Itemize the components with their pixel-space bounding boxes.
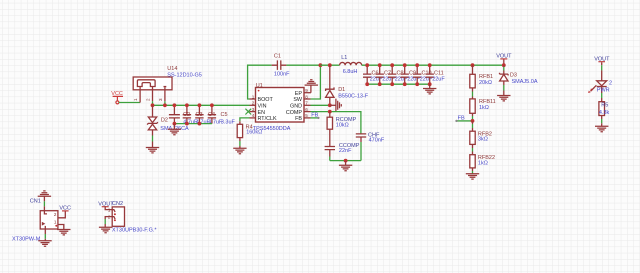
wire CN1 top pin bbox=[43, 196, 45, 210]
svg-text:EP: EP bbox=[295, 91, 303, 97]
U1 pin 4 RT/CLK bbox=[250, 117, 256, 119]
junction C2 bottom bbox=[173, 122, 177, 126]
svg-text:1: 1 bbox=[54, 220, 57, 225]
capacitor C7 22uF bbox=[376, 65, 396, 84]
svg-text:470nF: 470nF bbox=[369, 138, 385, 144]
svg-text:6.8uH: 6.8uH bbox=[343, 69, 358, 75]
svg-text:EN: EN bbox=[258, 110, 266, 116]
net flag VCC (input) bbox=[111, 91, 123, 104]
svg-text:SW: SW bbox=[293, 97, 303, 103]
junction D1 anode bbox=[328, 103, 332, 107]
svg-text:2: 2 bbox=[252, 101, 255, 106]
svg-text:D3: D3 bbox=[510, 72, 517, 78]
junction RCOMP / COMP bbox=[328, 110, 332, 114]
junction C11 top bbox=[428, 63, 432, 67]
svg-text:7: 7 bbox=[305, 101, 308, 106]
svg-text:3.3uF: 3.3uF bbox=[221, 119, 236, 125]
ground (divider) bbox=[466, 174, 479, 179]
node FB (pin 5 stub) bbox=[311, 113, 320, 120]
wire L1 to VOUT bbox=[362, 64, 504, 66]
svg-text:1: 1 bbox=[133, 98, 138, 101]
LED PWR bbox=[588, 70, 612, 101]
svg-text:VCC: VCC bbox=[111, 91, 123, 97]
svg-text:22uF: 22uF bbox=[432, 76, 445, 82]
resistor R4 160k bbox=[237, 118, 262, 148]
U14 pin 3 bbox=[164, 86, 167, 87]
capacitor C6 22uF bbox=[363, 65, 383, 84]
ground (EP pin, flipped) bbox=[305, 80, 318, 93]
U1 pin 1 BOOT bbox=[250, 98, 256, 100]
svg-text:B550C-13-F: B550C-13-F bbox=[338, 94, 369, 100]
ground (CN2 pin2) bbox=[99, 227, 112, 232]
switch U14 SS-12D10-G5 bbox=[133, 66, 202, 90]
ground (CN1 top, flipped) bbox=[38, 191, 51, 196]
svg-text:5: 5 bbox=[305, 113, 308, 118]
capacitor C2 bbox=[169, 105, 198, 125]
junction C6 bottom bbox=[365, 82, 369, 86]
svg-text:PWR: PWR bbox=[597, 87, 610, 93]
svg-text:6: 6 bbox=[305, 107, 308, 112]
junction C9 bottom bbox=[403, 82, 407, 86]
wire GND pin to D1 bbox=[311, 104, 330, 106]
wire output caps bottom rail bbox=[367, 83, 430, 85]
connector CN1 XT30PW-M bbox=[12, 198, 58, 242]
diode D2 SMAJ26CA (TVS) bbox=[147, 105, 189, 147]
CN2 pin 2 to ground bbox=[105, 217, 112, 228]
wire comp bottom rail bbox=[330, 160, 361, 162]
U1 pin 8 SW bbox=[304, 98, 311, 100]
junction C10 top bbox=[415, 63, 419, 67]
U14 pin 2 bbox=[152, 87, 154, 102]
capacitor C3 bbox=[183, 105, 211, 125]
svg-text:C1: C1 bbox=[274, 53, 281, 59]
svg-text:3: 3 bbox=[252, 107, 255, 112]
ground (comp network) bbox=[339, 161, 352, 171]
junction C11 bottom bbox=[428, 82, 432, 86]
svg-text:RT/CLK: RT/CLK bbox=[258, 116, 277, 122]
capacitor C9 22uF bbox=[401, 65, 421, 84]
junction C2 top bbox=[173, 103, 177, 107]
no-connect X on EN bbox=[245, 109, 251, 115]
ground (output caps) bbox=[423, 84, 436, 94]
U1 pin 9 EP bbox=[304, 92, 311, 94]
svg-text:100nF: 100nF bbox=[274, 72, 290, 78]
wire C1 to SW node bbox=[286, 64, 320, 66]
U1 pin 7 GND bbox=[304, 104, 311, 106]
junction C4 bottom bbox=[198, 122, 202, 126]
svg-text:3kΩ: 3kΩ bbox=[478, 137, 488, 143]
capacitor C1 100nF bbox=[272, 53, 291, 77]
junction C4 top bbox=[198, 103, 202, 107]
svg-text:CN1: CN1 bbox=[30, 198, 41, 204]
svg-text:XT30UPB30-F.G.*: XT30UPB30-F.G.* bbox=[112, 228, 157, 234]
resistor RFB2 3k bbox=[470, 121, 492, 155]
capacitor C11 22uF bbox=[426, 65, 446, 84]
svg-text:SMAJ5.0A: SMAJ5.0A bbox=[512, 79, 538, 85]
net flag VOUT (top) bbox=[496, 54, 512, 66]
capacitor CCOMP 22nF bbox=[325, 129, 360, 160]
resistor R5 4.3k bbox=[599, 102, 610, 127]
ground (CN1 bottom) bbox=[38, 241, 51, 246]
junction C8 top bbox=[390, 63, 394, 67]
svg-text:9: 9 bbox=[305, 88, 308, 93]
wire top rail to L1 bbox=[320, 64, 339, 66]
svg-text:XT30PW-M: XT30PW-M bbox=[12, 237, 41, 243]
svg-text:20kΩ: 20kΩ bbox=[479, 80, 492, 86]
svg-text:FB: FB bbox=[295, 116, 302, 122]
diode D3 SMAJ5.0A (TVS) bbox=[500, 65, 538, 95]
junction C3 bottom bbox=[185, 122, 189, 126]
svg-text:1: 1 bbox=[252, 94, 255, 99]
svg-text:C5: C5 bbox=[221, 112, 228, 118]
net flag VOUT (LED branch) bbox=[594, 56, 610, 65]
wire SW pin riser bbox=[311, 65, 321, 99]
svg-text:D2: D2 bbox=[161, 118, 168, 124]
junction pin3/rail bbox=[163, 103, 167, 107]
svg-text:BOOT: BOOT bbox=[258, 97, 274, 103]
junction C5 top bbox=[210, 103, 214, 107]
svg-text:U1: U1 bbox=[256, 83, 263, 89]
svg-text:4: 4 bbox=[252, 113, 255, 118]
wire VIN rail bbox=[153, 104, 250, 106]
net flag VCC (CN1) bbox=[59, 206, 71, 212]
ground (input caps) bbox=[168, 124, 181, 135]
junction SW riser / top rail bbox=[319, 63, 323, 67]
wire VCC to U14 pin1 bbox=[119, 102, 140, 104]
svg-text:8: 8 bbox=[305, 94, 308, 99]
wire BOOT riser to C1 bbox=[248, 65, 272, 99]
U1 pin 5 FB bbox=[304, 117, 311, 119]
junction C6 top bbox=[365, 63, 369, 67]
junction C10 bottom bbox=[415, 82, 419, 86]
capacitor CHF 470nF bbox=[356, 132, 385, 160]
junction comp ground bbox=[344, 159, 348, 163]
svg-text:GND: GND bbox=[290, 104, 302, 110]
junction pin2/rail bbox=[151, 103, 155, 107]
CN2 pin 1 to VOUT bbox=[105, 206, 112, 209]
svg-text:U14: U14 bbox=[167, 66, 177, 72]
resistor RFB22 1k bbox=[470, 155, 495, 174]
U14 pin 1 bbox=[139, 87, 141, 103]
capacitor C10 22uF bbox=[413, 65, 433, 84]
wire LED branch bbox=[601, 65, 603, 70]
U1 pin 6 COMP bbox=[304, 111, 311, 113]
svg-text:TPS54550DDA: TPS54550DDA bbox=[253, 126, 291, 132]
ground (R4) bbox=[233, 148, 246, 153]
capacitor C5 bbox=[208, 105, 236, 125]
junction FB divider bbox=[471, 119, 475, 123]
capacitor C8 22uF bbox=[388, 65, 408, 84]
ground (LED branch) bbox=[595, 126, 608, 131]
U1 pin 2 VIN bbox=[250, 104, 256, 106]
CN1 pin 1 to ground bbox=[58, 225, 64, 230]
CN1 pin 2 to VCC bbox=[58, 211, 65, 218]
svg-text:FB: FB bbox=[311, 113, 318, 119]
ground (CN1 pin1) bbox=[57, 230, 70, 235]
wire COMP pin to CHF bbox=[311, 112, 361, 134]
svg-text:SS-12D10-G5: SS-12D10-G5 bbox=[167, 72, 202, 78]
svg-text:FB: FB bbox=[458, 116, 465, 122]
wire input caps bottom rail bbox=[174, 123, 212, 125]
inductor L1 6.8uH bbox=[340, 55, 362, 75]
junction D1 / top rail bbox=[328, 63, 332, 67]
node FB (divider stub) bbox=[455, 116, 472, 123]
svg-text:L1: L1 bbox=[341, 55, 347, 61]
junction VOUT rail bbox=[502, 63, 506, 67]
svg-text:2: 2 bbox=[145, 98, 150, 101]
svg-text:1kΩ: 1kΩ bbox=[478, 160, 488, 166]
svg-text:10kΩ: 10kΩ bbox=[336, 123, 349, 129]
junction C3 top bbox=[185, 103, 189, 107]
svg-text:D1: D1 bbox=[338, 87, 345, 93]
connector CN2 XT30UPB30 bbox=[108, 201, 158, 234]
diode D1 B550C-13-F bbox=[326, 65, 369, 105]
svg-text:2: 2 bbox=[609, 81, 612, 87]
junction C7 bottom bbox=[378, 82, 382, 86]
U1 pin 3 EN bbox=[250, 111, 256, 113]
junction C8 bottom bbox=[390, 82, 394, 86]
svg-text:R5: R5 bbox=[601, 103, 608, 109]
op-amp U1 TPS54550DDA bbox=[253, 83, 304, 132]
svg-text:COMP: COMP bbox=[286, 110, 303, 116]
junction RFB1 / rail bbox=[471, 63, 475, 67]
svg-text:3: 3 bbox=[158, 98, 163, 101]
resistor RCOMP 10k bbox=[327, 112, 357, 130]
net flag VOUT (CN2) bbox=[98, 202, 114, 208]
capacitor C4 bbox=[195, 105, 223, 125]
junction C7 top bbox=[378, 63, 382, 67]
ground (D3) bbox=[497, 96, 510, 101]
CN1 bottom pin bbox=[44, 229, 46, 241]
svg-text:22nF: 22nF bbox=[339, 148, 352, 154]
ground (D2) bbox=[146, 148, 159, 153]
svg-text:CN2: CN2 bbox=[112, 201, 123, 207]
resistor RFB11 1k bbox=[470, 99, 496, 121]
ground (sideways, GND pin) bbox=[330, 99, 342, 112]
junction C9 top bbox=[403, 63, 407, 67]
svg-text:4.3k: 4.3k bbox=[599, 110, 610, 116]
svg-text:VIN: VIN bbox=[258, 104, 267, 110]
svg-text:1kΩ: 1kΩ bbox=[479, 105, 489, 111]
resistor RFB1 20k bbox=[470, 65, 493, 99]
svg-text:2: 2 bbox=[54, 212, 57, 217]
